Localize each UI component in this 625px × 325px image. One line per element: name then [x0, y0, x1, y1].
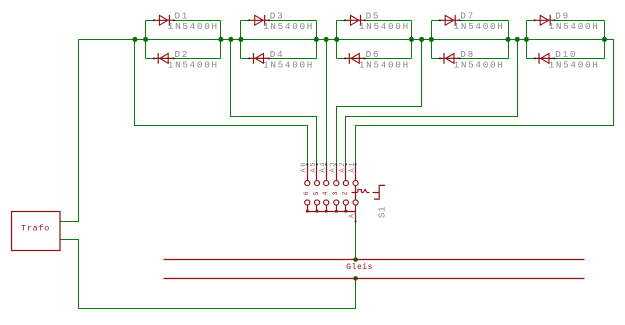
wire loop left vertical pair1: [145, 21, 147, 59]
junction loop4 left: [429, 37, 434, 42]
wire to D8 cathode: [432, 58, 440, 60]
junction tap5: [515, 37, 520, 42]
wire to D10 cathode: [527, 58, 535, 60]
svg-text:A6: A6: [301, 161, 309, 173]
diode D10 1N5400H: [534, 49, 600, 71]
wire loop left vertical pair5: [526, 21, 528, 59]
svg-text:5: 5: [313, 191, 320, 195]
junction loop2 left: [238, 37, 243, 42]
svg-text:1N5400H: 1N5400H: [168, 59, 219, 70]
junction loop1 right: [218, 37, 223, 42]
wire net A to Gleis rail1: [355, 222, 357, 260]
svg-text:1N5400H: 1N5400H: [263, 59, 314, 70]
svg-text:Trafo: Trafo: [21, 223, 50, 233]
wire to D3 anode: [241, 20, 250, 22]
diode D3 1N5400H: [248, 11, 314, 33]
wire loop left vertical pair3: [336, 21, 338, 59]
junction loop4 right: [505, 37, 510, 42]
Gleis rail 1: [164, 259, 585, 261]
svg-text:D10: D10: [555, 49, 577, 60]
wire net A3: [337, 40, 422, 165]
wire to D2 cathode: [146, 58, 154, 60]
svg-text:1N5400H: 1N5400H: [359, 21, 410, 32]
svg-text:1N5400H: 1N5400H: [359, 59, 410, 70]
wire net A5: [231, 40, 317, 165]
svg-text:D9: D9: [555, 11, 570, 22]
wire from D3 cathode: [269, 20, 317, 22]
svg-text:A2: A2: [339, 161, 347, 173]
wire net A2: [346, 40, 518, 165]
svg-text:Gleis: Gleis: [346, 263, 373, 272]
wire from D6 anode: [365, 58, 412, 60]
wire from D1 cathode: [174, 20, 221, 22]
wire to D7 anode: [432, 20, 440, 22]
junction loop2 right: [314, 37, 319, 42]
wire loop right vertical pair4: [508, 21, 510, 59]
wire to D1 anode: [146, 20, 154, 22]
junction tap3: [324, 37, 329, 42]
svg-text:A5: A5: [310, 161, 318, 173]
svg-text:D1: D1: [175, 11, 190, 22]
diode D1 1N5400H: [153, 11, 219, 33]
wire loop right vertical pair2: [316, 21, 318, 59]
svg-text:A1: A1: [349, 161, 357, 173]
svg-text:A3: A3: [330, 161, 338, 173]
svg-text:D6: D6: [366, 49, 381, 60]
svg-text:3: 3: [332, 191, 339, 195]
diode D9 1N5400H: [534, 11, 600, 33]
diode D4 1N5400H: [248, 49, 314, 71]
junction loop5 left: [524, 37, 529, 42]
rotary switch S1: [305, 163, 385, 222]
Gleis rail 2: [164, 278, 585, 280]
wire Trafo pin2 to Gleis rail2: [61, 240, 356, 309]
wire from D4 anode: [269, 58, 317, 60]
svg-text:D5: D5: [366, 11, 381, 22]
junction Gleis rail2: [353, 276, 358, 281]
svg-text:2: 2: [342, 191, 349, 195]
transformer Trafo: [12, 212, 61, 251]
wire to D4 cathode: [241, 58, 250, 60]
wire from D10 anode: [555, 58, 605, 60]
wire main bus: [79, 39, 605, 41]
svg-text:1N5400H: 1N5400H: [454, 59, 505, 70]
diode D5 1N5400H: [344, 11, 410, 33]
wire net A6: [135, 40, 308, 165]
wire loop right vertical pair5: [604, 21, 606, 59]
wire loop right vertical pair3: [411, 21, 413, 59]
wire loop left vertical pair4: [431, 21, 433, 59]
diode D2 1N5400H: [153, 49, 219, 71]
svg-text:D3: D3: [270, 11, 285, 22]
svg-text:1N5400H: 1N5400H: [549, 21, 600, 32]
svg-text:D2: D2: [175, 49, 190, 60]
svg-text:D8: D8: [460, 49, 475, 60]
svg-text:4: 4: [322, 191, 329, 195]
wire from D9 cathode: [555, 20, 605, 22]
svg-text:1N5400H: 1N5400H: [454, 21, 505, 32]
wire to D9 anode: [527, 20, 535, 22]
wire from D8 anode: [460, 58, 509, 60]
wire loop left vertical pair2: [240, 21, 242, 59]
wire to D6 cathode: [337, 58, 345, 60]
junction tap2: [228, 37, 233, 42]
wire net A1: [356, 40, 614, 165]
junction loop3 right: [409, 37, 414, 42]
wire loop right vertical pair1: [220, 21, 222, 59]
junction loop3 left: [334, 37, 339, 42]
junction Gleis rail1: [353, 257, 358, 262]
svg-text:1N5400H: 1N5400H: [168, 21, 219, 32]
wire to D5 anode: [337, 20, 345, 22]
diode D7 1N5400H: [439, 11, 505, 33]
diode D8 1N5400H: [439, 49, 505, 71]
wire from D2 anode: [174, 58, 221, 60]
junction loop5 right: [602, 37, 607, 42]
junction tap4: [419, 37, 424, 42]
svg-text:A: A: [348, 212, 356, 218]
diode D6 1N5400H: [344, 49, 410, 71]
svg-text:1N5400H: 1N5400H: [263, 21, 314, 32]
svg-text:A4: A4: [319, 161, 327, 173]
wire net A4: [326, 40, 328, 165]
wire from D7 cathode: [460, 20, 509, 22]
svg-text:6: 6: [303, 191, 310, 195]
svg-text:D7: D7: [460, 11, 475, 22]
svg-text:S1: S1: [377, 206, 388, 218]
wire from D5 cathode: [365, 20, 412, 22]
junction loop1 left: [143, 37, 148, 42]
junction tap1: [132, 37, 137, 42]
wire Trafo pin1 to bus: [61, 40, 79, 222]
svg-text:1N5400H: 1N5400H: [549, 59, 600, 70]
svg-text:D4: D4: [270, 49, 285, 60]
